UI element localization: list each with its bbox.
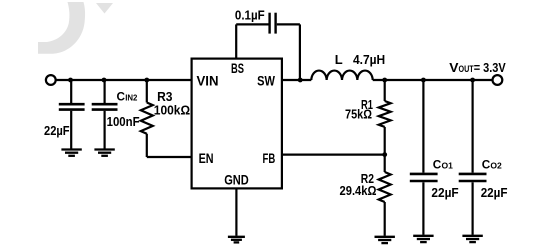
svg-text:29.4kΩ: 29.4kΩ — [340, 183, 377, 198]
svg-text:VIN: VIN — [197, 73, 219, 89]
capacitor CIN2 100nF — [92, 80, 118, 149]
svg-text:O1: O1 — [442, 161, 454, 171]
ground (input cap 2) — [94, 150, 114, 156]
node FB junction — [382, 152, 387, 157]
svg-text:100nF: 100nF — [107, 114, 140, 129]
wire EN — [147, 156, 191, 158]
svg-text:BS: BS — [231, 60, 244, 76]
capacitor CO2 — [459, 80, 487, 235]
svg-text:= 3.3V: = 3.3V — [474, 60, 506, 75]
svg-text:100kΩ: 100kΩ — [154, 103, 190, 118]
svg-text:22µF: 22µF — [44, 123, 70, 138]
node L/R1 — [382, 78, 387, 83]
resistor R1 — [379, 80, 391, 155]
node R3 — [144, 78, 149, 83]
node input cap 2 — [102, 78, 107, 83]
svg-text:C: C — [433, 157, 442, 171]
inductor L 4.7uH — [311, 71, 372, 80]
resistor R2 — [379, 155, 391, 236]
capacitor CO1 — [410, 80, 438, 235]
svg-text:EN: EN — [199, 150, 214, 166]
watermark — [38, 2, 113, 54]
wire output rail — [373, 79, 493, 81]
output terminal — [493, 75, 503, 85]
svg-text:4.7µH: 4.7µH — [353, 52, 385, 67]
svg-text:FB: FB — [263, 150, 276, 166]
svg-text:22µF: 22µF — [481, 185, 508, 200]
node CO2 — [470, 78, 475, 83]
svg-text:IN2: IN2 — [125, 93, 137, 103]
svg-text:C: C — [482, 157, 491, 171]
ground (CO2) — [462, 236, 482, 242]
svg-text:75kΩ: 75kΩ — [345, 106, 372, 121]
ground (CO1) — [413, 236, 433, 242]
ground (IC GND) — [228, 237, 245, 243]
wire input rail — [57, 79, 192, 81]
wire SW — [282, 79, 311, 81]
wire GND pin — [235, 188, 237, 235]
node input cap 1 — [68, 78, 73, 83]
capacitor 0.1uF (bootstrap) — [270, 13, 276, 34]
svg-text:L: L — [335, 52, 343, 67]
wire BS cap to SW — [277, 24, 300, 80]
input terminal — [46, 75, 56, 85]
wire FB — [282, 154, 385, 156]
svg-text:C: C — [117, 89, 126, 103]
ground (R2) — [375, 237, 395, 243]
node CO1 — [421, 78, 426, 83]
resistor R3 — [141, 80, 191, 157]
svg-text:0.1µF: 0.1µF — [235, 7, 265, 22]
op-amp U1 (converter IC) — [192, 59, 282, 189]
svg-text:V: V — [449, 60, 459, 75]
svg-text:SW: SW — [257, 73, 275, 89]
svg-text:OUT: OUT — [459, 64, 474, 75]
ground (input cap 1) — [61, 150, 81, 156]
capacitor 22uF input — [59, 80, 85, 149]
svg-text:22µF: 22µF — [431, 185, 458, 200]
svg-text:GND: GND — [224, 172, 249, 187]
node SW/BS junction — [298, 78, 303, 83]
svg-text:O2: O2 — [490, 161, 502, 171]
wire BS branch — [236, 24, 268, 58]
svg-text:R3: R3 — [157, 89, 172, 104]
